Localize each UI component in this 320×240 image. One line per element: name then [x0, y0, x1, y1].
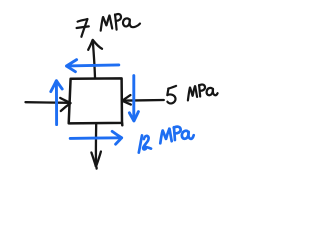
normal stress arrow left (sigma-x)	[26, 98, 71, 111]
label "12" (blue)	[139, 135, 151, 152]
square corner overshoot (bottom-right)	[121, 123, 124, 125]
shear arrow top (blue, pointing left)	[67, 60, 119, 72]
shear arrow right (blue, pointing down)	[129, 76, 138, 121]
stress element square	[69, 78, 122, 123]
normal stress arrow right (sigma-x, 5 MPa)	[122, 95, 164, 105]
label "5" (black)	[167, 86, 176, 104]
normal stress arrow bottom (sigma-y)	[91, 124, 101, 169]
label "MPa" after 7 (black)	[101, 14, 140, 31]
label "MPa" after 5 (black)	[188, 84, 218, 100]
normal stress arrow top (sigma-y, 7 MPa)	[88, 40, 102, 78]
label "7" (black)	[77, 19, 89, 37]
shear arrow left (blue, pointing up)	[51, 81, 62, 125]
label "MPa" (blue)	[160, 127, 193, 144]
shear arrow bottom (blue, pointing right)	[70, 131, 121, 144]
